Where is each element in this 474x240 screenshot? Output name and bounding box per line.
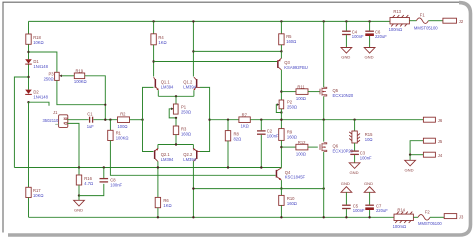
svg-text:J2: J2 (459, 19, 464, 24)
wire R1 bottom down then NFB lower bus to Q4 base (110, 141, 275, 176)
ground below R16 (74, 196, 85, 213)
svg-text:R2: R2 (120, 111, 126, 116)
diode D1 1N4148 (25, 59, 48, 69)
svg-text:GND: GND (364, 181, 373, 186)
resistor R18 (26, 34, 44, 45)
svg-text:LM394: LM394 (183, 84, 196, 89)
transistor Q2.2 LM394 (183, 148, 200, 162)
wire output row down to Q6 drain (323, 120, 325, 142)
svg-text:82Ω: 82Ω (234, 136, 242, 141)
svg-text:100nF: 100nF (353, 208, 365, 213)
connector J4 (410, 152, 443, 158)
wire Q3 base long run (154, 61, 278, 63)
svg-text:250Ω: 250Ω (287, 104, 297, 109)
svg-text:LM394: LM394 (183, 157, 196, 162)
svg-text:100mΩ: 100mΩ (393, 224, 406, 229)
connector J3 (444, 214, 464, 220)
svg-text:LM394: LM394 (161, 157, 174, 162)
wire D1 to D2 (28, 65, 30, 90)
svg-text:100KΩ: 100KΩ (116, 135, 129, 140)
wire source bus Q2.2col to Q6 column (193, 188, 323, 190)
node input column (141, 119, 143, 121)
resistor R12 (281, 140, 317, 157)
resistor R11 (281, 84, 319, 101)
svg-text:160Ω: 160Ω (181, 131, 191, 136)
wire Q2.2 base right up to NFB node (200, 120, 210, 152)
connector J2 (443, 18, 464, 24)
wire R2 to input node (130, 119, 143, 121)
wire P3 bottom loop to R19 right column (57, 80, 105, 104)
resistor R16 (76, 168, 93, 186)
svg-text:10KΩ: 10KΩ (33, 40, 43, 45)
svg-text:J1: J1 (53, 110, 58, 115)
wire R6 bottom to rail (157, 208, 159, 218)
wire Q5 source to output row (323, 96, 325, 119)
node R15 tap on output row (353, 119, 355, 121)
node R11 tap (280, 90, 282, 92)
potentiometer P3 250R (44, 71, 62, 81)
wire R18 bottom to D1 (28, 44, 30, 59)
svg-text:160Ω: 160Ω (287, 134, 297, 139)
resistor R3 (173, 126, 191, 136)
wire Q1 emitter bus (158, 90, 194, 104)
wire J1 pin1 to C1 (67, 119, 88, 121)
node bias tap junction (27, 51, 29, 53)
resistor R13 power (389, 9, 410, 32)
wire input node up to Q1.1 base (143, 87, 154, 119)
wire R19 right down to input row (85, 76, 106, 120)
wire R16 bottom to gnd point (78, 185, 80, 195)
resistor R17 (26, 187, 44, 198)
svg-text:100nF: 100nF (110, 182, 122, 187)
svg-text:220uF: 220uF (376, 208, 388, 213)
capacitor C3 100nF (350, 143, 372, 160)
svg-text:1KΩ: 1KΩ (163, 203, 171, 208)
wire input node down to Q2.1 base (143, 120, 154, 152)
resistor R10 (279, 189, 297, 219)
svg-text:1KΩ: 1KΩ (241, 124, 249, 129)
node D1/D2 midpoint (27, 76, 29, 78)
wire D2 junction down to R17 (28, 102, 30, 187)
capacitor C6 220uF (365, 20, 387, 47)
connector J5 (410, 138, 443, 155)
svg-text:J4: J4 (438, 153, 443, 158)
transistor Q3 KSA992 (277, 51, 308, 69)
transistor Q4 KSC1845 (276, 168, 306, 180)
wire Q3 collector down to P2 (280, 70, 282, 100)
transistor Q1.1 LM394 (154, 77, 174, 90)
wire R3 bottom to Q2 emitter bus (175, 135, 177, 145)
capacitor C7 220uF with ground above (364, 181, 388, 218)
svg-text:100Ω: 100Ω (296, 96, 306, 101)
svg-text:1N4148: 1N4148 (33, 94, 48, 99)
wire rail down Q1.2 collector column (192, 21, 194, 76)
ground below C6 (364, 48, 375, 60)
svg-text:F1: F1 (420, 13, 426, 18)
wire Q2 emitter bus (158, 143, 194, 149)
node J1 pin2 / R16 on gnd bus (78, 166, 80, 168)
fuse F1 (409, 13, 443, 31)
wire V- bottom rail (29, 216, 395, 218)
node D2 cathode junction (27, 101, 29, 103)
svg-text:1uF: 1uF (87, 124, 95, 129)
node P3 bottom tap (104, 104, 106, 106)
svg-text:160Ω: 160Ω (286, 39, 296, 44)
node R16/C8 gnd node (78, 194, 80, 196)
wire R17 bottom to V- rail (28, 198, 30, 218)
wire R5 bottom to Q3 emitter node (280, 45, 282, 52)
wire R8 bottom to gnd bus (227, 141, 229, 168)
resistor R4 (151, 20, 167, 45)
svg-text:GND: GND (74, 208, 83, 213)
wire branch to R5 bottom / Q3 emitter (193, 50, 281, 52)
svg-text:J5: J5 (438, 139, 443, 144)
svg-text:R11: R11 (297, 84, 305, 89)
wire R9 bottom to R12 node and Q4 collector (280, 140, 282, 168)
wire P3 wiper to R19 (62, 75, 75, 77)
svg-text:10KΩ: 10KΩ (33, 193, 43, 198)
svg-text:GND: GND (350, 170, 359, 175)
svg-text:1N4148: 1N4148 (33, 64, 48, 69)
wire V+ top rail (29, 20, 391, 22)
svg-text:1KΩ: 1KΩ (158, 40, 166, 45)
capacitor C2 100nF (257, 119, 279, 169)
svg-text:R14: R14 (397, 207, 405, 212)
svg-text:100KΩ: 100KΩ (74, 79, 87, 84)
svg-text:LM394: LM394 (161, 84, 174, 89)
svg-text:KSA992FBU: KSA992FBU (284, 65, 307, 70)
wire gnd bus (left drop to Q4 collector) (14, 167, 281, 169)
svg-text:160Ω: 160Ω (287, 201, 297, 206)
ground below C3 (349, 155, 360, 175)
svg-text:R19: R19 (76, 68, 84, 73)
wire junction to P3 top (29, 52, 57, 72)
svg-text:KSC1845F: KSC1845F (285, 175, 306, 180)
svg-text:GND: GND (365, 55, 374, 60)
capacitor C5 100nF with ground above (341, 181, 365, 218)
node C8 on gnd bus (103, 166, 105, 168)
wire P1 bottom to R3 (175, 118, 177, 126)
wire Q2.2 collector down to V- rail (192, 161, 194, 217)
svg-text:100nF: 100nF (352, 34, 364, 39)
connector J6 (423, 117, 442, 123)
svg-text:R13: R13 (393, 9, 401, 14)
potentiometer P2 250R (276, 100, 297, 114)
svg-text:MMST05100: MMST05100 (414, 25, 438, 30)
resistor R6 (155, 197, 171, 208)
wire C8 bottom loop (79, 184, 104, 196)
svg-text:4.7Ω: 4.7Ω (84, 181, 93, 186)
wire Q4 emitter down to source bus (280, 180, 282, 188)
node R19 column joins input row (104, 119, 106, 121)
svg-text:100mΩ: 100mΩ (389, 27, 402, 32)
mosfet Q6 ECX10P20 (320, 143, 354, 154)
connector J1 (43, 110, 68, 128)
wire midpoint left and down long left drop (14, 77, 28, 168)
diode D2 1N4148 (25, 90, 48, 100)
capacitor C1 1uF (87, 112, 95, 129)
resistor R7 (239, 112, 250, 128)
svg-text:C1: C1 (87, 112, 93, 117)
svg-text:GND: GND (341, 181, 350, 186)
svg-text:250Ω: 250Ω (181, 109, 191, 114)
svg-text:250Ω: 250Ω (44, 76, 54, 81)
resistor R2 (118, 111, 130, 128)
svg-text:220uF: 220uF (375, 34, 387, 39)
node R8 tap (227, 119, 229, 121)
capacitor C4 100nF (342, 20, 364, 47)
resistor R8 (225, 120, 241, 142)
svg-text:100Ω: 100Ω (296, 151, 306, 156)
svg-text:100nF: 100nF (267, 133, 279, 138)
svg-text:100Ω: 100Ω (118, 124, 128, 129)
svg-text:10Ω: 10Ω (365, 137, 373, 142)
resistor R1 (108, 120, 129, 141)
wire R4 bottom to Q1.1 collector (153, 45, 155, 77)
svg-text:100nF: 100nF (360, 155, 372, 160)
svg-text:J3: J3 (459, 215, 464, 220)
node VAS emitter branch (192, 50, 194, 52)
node Q3 base tap (152, 60, 154, 62)
resistor R15 power (349, 120, 373, 143)
node NFB column top (208, 119, 210, 121)
resistor R14 power (393, 207, 414, 229)
node R1 tap on input row (109, 119, 111, 121)
wire Q6 source down to V- rail (323, 152, 325, 218)
svg-text:R12: R12 (298, 140, 306, 145)
svg-text:GND: GND (405, 167, 414, 172)
wire NFB row to R7 (210, 119, 239, 121)
svg-text:R7: R7 (242, 112, 248, 117)
resistor R5 (279, 20, 297, 45)
wire J1 pin2 down to gnd bus (67, 123, 79, 167)
resistor R19 (74, 68, 87, 84)
wire R7 right along output row to J6 (250, 119, 423, 121)
svg-text:ECX10N20: ECX10N20 (333, 93, 354, 98)
fuse F2 (413, 209, 444, 226)
transistor Q2.1 LM394 (154, 148, 174, 162)
svg-text:GND: GND (341, 55, 350, 60)
wire D2 junction stub toward J1 (29, 102, 50, 106)
wire rail corner down to R18 (28, 21, 30, 34)
svg-text:3502110: 3502110 (43, 118, 60, 123)
capacitor C8 100nF (100, 168, 123, 188)
transistor Q1.2 LM394 (183, 77, 200, 90)
wire C1 to R2 (93, 119, 117, 121)
wire Q2.1 collector down through buses to R6 (157, 161, 159, 197)
wire Q1.2 base right and down to NFB node (200, 87, 210, 119)
svg-text:J6: J6 (438, 118, 443, 123)
mosfet Q5 ECX10N20 (320, 20, 354, 98)
svg-text:F2: F2 (425, 209, 431, 214)
resistor R9 (279, 129, 297, 141)
ground below J5/J4 (405, 154, 416, 173)
svg-text:MMST05100: MMST05100 (418, 221, 442, 226)
potentiometer P1 250R (169, 104, 191, 119)
wire P2 bottom through output row to R9 (280, 109, 282, 129)
ground below C4 (341, 48, 352, 60)
